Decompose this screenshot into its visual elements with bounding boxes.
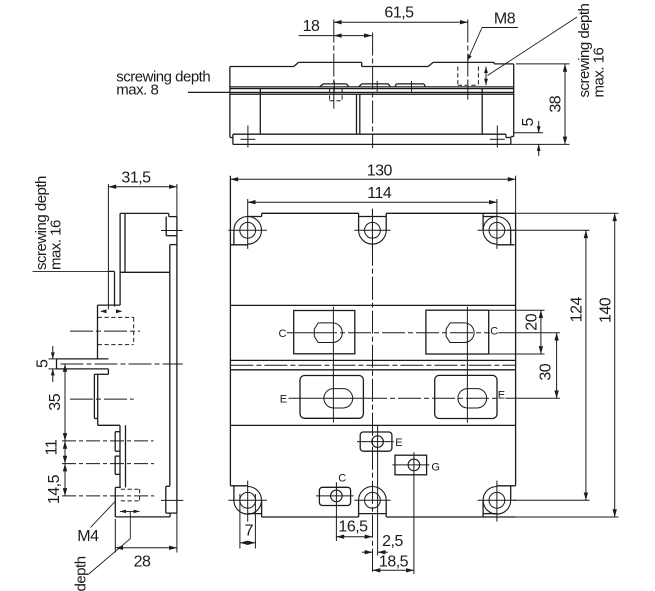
svg-text:5: 5 bbox=[520, 118, 537, 127]
svg-text:14,5: 14,5 bbox=[46, 474, 63, 504]
svg-text:140: 140 bbox=[597, 297, 614, 323]
svg-text:E: E bbox=[498, 389, 505, 401]
svg-text:C: C bbox=[338, 473, 346, 485]
svg-text:E: E bbox=[395, 437, 402, 449]
svg-text:max. 16: max. 16 bbox=[590, 47, 607, 97]
svg-text:18: 18 bbox=[303, 18, 320, 35]
svg-text:31,5: 31,5 bbox=[121, 170, 151, 187]
svg-text:28: 28 bbox=[134, 554, 151, 571]
svg-text:5: 5 bbox=[35, 359, 52, 368]
svg-text:E: E bbox=[280, 394, 287, 406]
svg-text:16,5: 16,5 bbox=[338, 519, 368, 536]
svg-text:M8: M8 bbox=[494, 11, 516, 28]
svg-text:max. 16: max. 16 bbox=[48, 220, 65, 270]
svg-text:11: 11 bbox=[44, 439, 61, 455]
svg-text:20: 20 bbox=[523, 313, 540, 330]
svg-text:38: 38 bbox=[548, 95, 565, 112]
svg-text:61,5: 61,5 bbox=[384, 5, 414, 22]
svg-text:C: C bbox=[490, 325, 498, 337]
svg-text:2,5: 2,5 bbox=[382, 533, 403, 550]
svg-text:depth: depth bbox=[73, 556, 90, 591]
svg-text:30: 30 bbox=[537, 363, 554, 380]
svg-text:7: 7 bbox=[245, 523, 254, 540]
svg-text:M4: M4 bbox=[77, 528, 99, 545]
svg-text:35: 35 bbox=[47, 393, 64, 410]
svg-text:G: G bbox=[431, 461, 439, 473]
svg-text:130: 130 bbox=[367, 163, 393, 180]
svg-text:18,5: 18,5 bbox=[379, 553, 409, 570]
svg-text:C: C bbox=[278, 328, 286, 340]
svg-text:124: 124 bbox=[568, 297, 585, 323]
svg-text:114: 114 bbox=[367, 185, 392, 202]
svg-text:max. 8: max. 8 bbox=[116, 82, 158, 99]
